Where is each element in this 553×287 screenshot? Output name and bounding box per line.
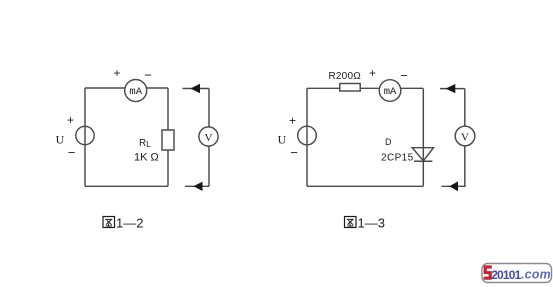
voltage source U (right circuit)	[298, 126, 317, 145]
ammeter mA (right circuit)	[379, 80, 401, 102]
wire left (right loop)	[306, 88, 308, 186]
svg-text:U: U	[56, 133, 65, 147]
svg-text:U: U	[278, 133, 287, 147]
svg-text:V: V	[461, 132, 469, 144]
svg-text:1—2: 1—2	[116, 216, 143, 231]
svg-text:−: −	[290, 145, 298, 160]
diode D triangle	[412, 148, 433, 161]
svg-text:V: V	[205, 132, 213, 144]
svg-text:1K Ω: 1K Ω	[134, 152, 159, 164]
wire left (left loop)	[84, 88, 86, 186]
svg-text:2CP15: 2CP15	[381, 153, 414, 164]
wire top (left loop)	[85, 87, 168, 89]
probe arrowhead bottom (left voltmeter)	[194, 182, 203, 191]
voltmeter branch wire (left)	[208, 89, 210, 187]
wire bottom (left loop)	[85, 185, 168, 187]
svg-text:RL: RL	[139, 138, 151, 149]
probe arrowhead top (right voltmeter)	[446, 84, 456, 93]
svg-text:+: +	[369, 66, 376, 80]
probe wire top (right voltmeter)	[440, 88, 465, 90]
wire right (right loop)	[422, 88, 424, 186]
svg-text:R200Ω: R200Ω	[329, 71, 362, 82]
svg-text:D: D	[385, 137, 392, 147]
svg-text:mA: mA	[129, 86, 142, 98]
probe wire bottom (left voltmeter)	[185, 185, 209, 187]
svg-text:−: −	[144, 67, 152, 82]
probe wire top (left voltmeter)	[183, 88, 210, 90]
svg-text:+: +	[113, 66, 120, 80]
ammeter mA (left circuit)	[125, 80, 147, 102]
probe wire bottom (right voltmeter)	[442, 185, 466, 187]
probe arrowhead bottom (right voltmeter)	[449, 181, 458, 191]
logo 5 (stylized red blocky five)	[484, 265, 492, 279]
voltmeter branch wire (right)	[464, 89, 466, 187]
wire right (left loop)	[167, 88, 169, 186]
svg-text:.com: .com	[521, 268, 551, 282]
caption 图1-2 : hand-drawn 图 glyph	[103, 217, 115, 228]
svg-text:20101: 20101	[491, 268, 521, 282]
caption 图1-3 : hand-drawn 图 glyph	[345, 217, 357, 228]
diode cathode bar	[414, 160, 432, 162]
probe arrowhead top (left voltmeter)	[191, 84, 201, 93]
voltmeter V (right circuit)	[455, 126, 475, 146]
wire bottom (right loop)	[307, 185, 423, 187]
svg-text:+: +	[289, 114, 296, 128]
resistor RL (left circuit)	[162, 130, 174, 150]
svg-text:1—3: 1—3	[358, 216, 385, 231]
voltmeter V (left circuit)	[199, 127, 218, 146]
wire top (right loop)	[307, 87, 423, 89]
svg-text:mA: mA	[384, 86, 397, 98]
svg-text:−: −	[400, 68, 408, 83]
svg-text:−: −	[68, 145, 76, 160]
logo box	[482, 264, 552, 283]
svg-text:+: +	[67, 113, 74, 127]
voltage source U (left circuit)	[76, 126, 94, 144]
resistor R 200 ohm	[340, 84, 360, 92]
